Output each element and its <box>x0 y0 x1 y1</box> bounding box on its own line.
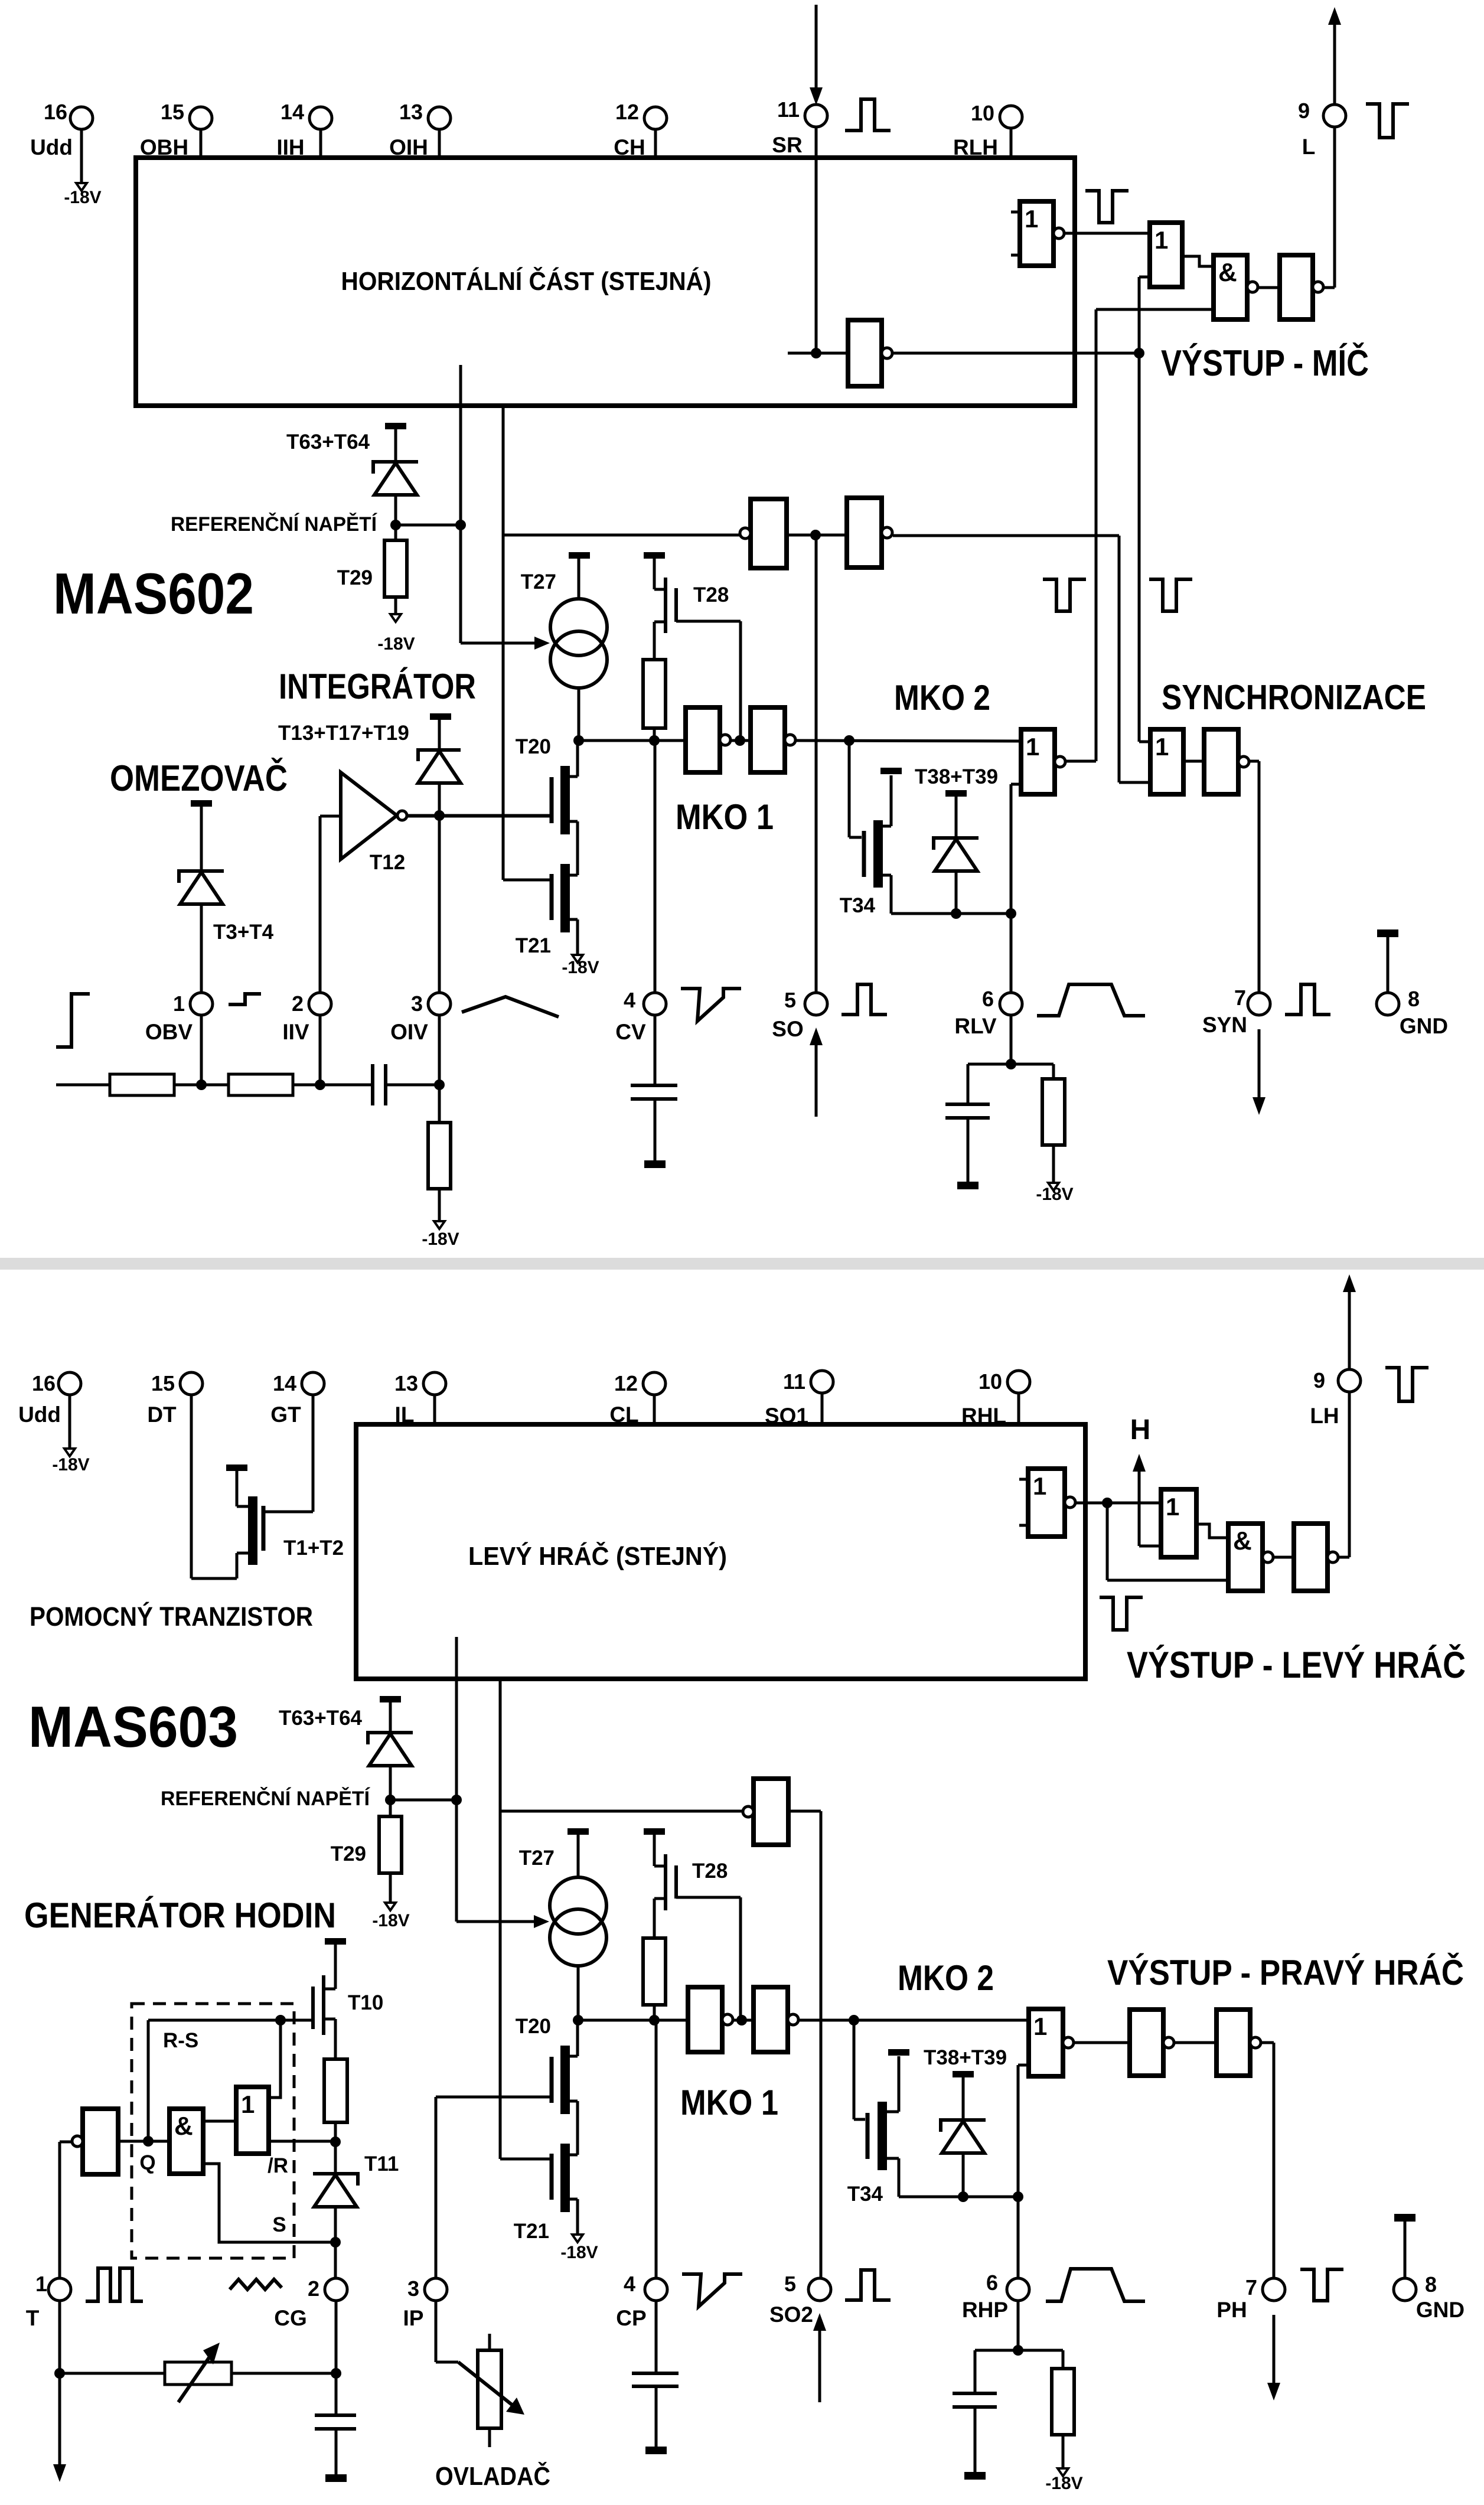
transistor T28 supply bar bottom <box>644 1828 665 1835</box>
pin 15 DT <box>180 1372 203 1395</box>
svg-text:HORIZONTÁLNÍ ČÁST (STEJNÁ): HORIZONTÁLNÍ ČÁST (STEJNÁ) <box>341 266 712 296</box>
svg-text:11: 11 <box>783 1369 805 1394</box>
waveform sawtooth at pin2 <box>230 2279 282 2289</box>
transistor T28 supply bar <box>644 552 665 559</box>
waveform pulse at pin7 PH <box>1300 2269 1343 2301</box>
waveform ramp at pin4 <box>681 989 741 1021</box>
wire U21 out to U22 <box>1174 2041 1216 2044</box>
input arrow pin11 <box>815 5 818 90</box>
svg-text:T38+T39: T38+T39 <box>915 765 998 788</box>
transistor T1+T2 <box>236 1471 239 1506</box>
output arrow pin7 PH <box>1273 2315 1276 2383</box>
waveform pulse below box <box>1100 1597 1143 1630</box>
NAND U8 MKO1 <box>686 707 720 772</box>
wire pin15 stem <box>200 128 203 158</box>
wire pin6 down <box>1010 1014 1013 1064</box>
diode T3+T4 supply bar <box>191 800 212 807</box>
wire feedback row <box>503 534 745 537</box>
wire T21 source to -18V bottom <box>576 2199 579 2235</box>
svg-text:IIH: IIH <box>276 135 304 159</box>
wire SO2 line <box>820 1811 823 2279</box>
power -18V below T29 <box>390 614 401 622</box>
MKO1 feedback line <box>502 406 505 535</box>
wire U20 out to U21 <box>1074 2041 1130 2044</box>
inverter T12 <box>341 772 397 859</box>
svg-text:SO1: SO1 <box>765 1404 808 1428</box>
svg-text:GENERÁTOR HODIN: GENERÁTOR HODIN <box>24 1896 336 1935</box>
wire T20 drain up <box>576 741 579 777</box>
wire pin2 stem <box>319 1014 322 1085</box>
svg-text:4: 4 <box>624 988 635 1012</box>
svg-text:-18V: -18V <box>52 1455 89 1475</box>
node S <box>330 2237 341 2248</box>
pin 11 SO1 <box>811 1371 833 1393</box>
wire diode T38 to row <box>955 871 958 914</box>
node U8 out <box>735 735 745 746</box>
svg-text:13: 13 <box>394 1371 418 1395</box>
wire T27 to node T20 bottom <box>577 1966 580 2020</box>
svg-text:T11: T11 <box>364 2152 399 2175</box>
pin 16 Udd bottom <box>58 1372 81 1395</box>
wire T20 source to T21 drain bottom <box>576 2101 579 2155</box>
wire U25 out to R node <box>269 2140 335 2143</box>
wire U6 input to node SO <box>787 534 847 537</box>
wire pin14 to T1 gate <box>312 1394 315 1512</box>
node RHP column <box>1013 2191 1023 2202</box>
svg-text:POMOCNÝ TRANZISTOR: POMOCNÝ TRANZISTOR <box>30 1601 313 1632</box>
OR gate U25 <box>236 2087 269 2154</box>
wire U8 to U9 <box>730 739 751 742</box>
variable resistor R5 <box>165 2362 231 2385</box>
resistor T29 <box>394 525 397 540</box>
wire resistor to node <box>653 728 656 741</box>
svg-text:R-S: R-S <box>163 2029 198 2052</box>
transistor T63+T64 supply bar <box>385 423 406 429</box>
wire pin10 stem bottom <box>1017 1392 1020 1424</box>
capacitor C4 <box>335 2373 338 2415</box>
inverter U6 facing left <box>751 499 787 568</box>
wire pin15 to T1 source <box>190 1394 193 1578</box>
wire diode T3 to pin1 <box>200 904 203 994</box>
wire U14 out jog to U15 <box>1196 1524 1228 1538</box>
resistor below T10 <box>324 2059 347 2122</box>
wire Q up to T10 gate <box>147 2020 150 2141</box>
svg-text:5: 5 <box>784 2272 796 2296</box>
svg-text:REFERENČNÍ NAPĚTÍ: REFERENČNÍ NAPĚTÍ <box>161 1787 371 1810</box>
node SO feedback <box>810 530 821 540</box>
svg-text:13: 13 <box>399 100 423 124</box>
diode T11 <box>334 2142 337 2174</box>
current source T27 supply bar bottom <box>567 1828 589 1835</box>
node pin1 bottom <box>54 2368 65 2379</box>
svg-text:T3+T4: T3+T4 <box>213 921 274 944</box>
wire pin3 down to wiper <box>435 2299 438 2362</box>
pin 5 SO <box>805 993 827 1015</box>
transistor T21 bottom <box>560 2144 570 2212</box>
svg-text:7: 7 <box>1234 986 1246 1010</box>
wire pin12 stem <box>654 128 657 158</box>
node row MKO1 bottom <box>578 2019 688 2022</box>
wire T11 to S node <box>334 2207 337 2242</box>
wire T34 source row bottom <box>899 2196 1018 2199</box>
svg-text:RHP: RHP <box>962 2298 1008 2322</box>
inverter U7 <box>847 498 882 567</box>
svg-text:OVLADAČ: OVLADAČ <box>435 2461 550 2491</box>
svg-text:-18V: -18V <box>1045 2474 1082 2493</box>
wire C6 to ground <box>974 2407 977 2472</box>
wire U5 output to pin9 <box>1323 286 1335 289</box>
svg-text:SYN: SYN <box>1202 1013 1247 1037</box>
wire U13 input stubs <box>1019 1478 1028 1481</box>
svg-text:PH: PH <box>1216 2298 1247 2322</box>
wire diode T13 to T12 out <box>438 783 441 816</box>
OR gate U11 sync <box>1150 729 1183 794</box>
wire U24 out to U25 <box>203 2120 236 2123</box>
resistor below T28 bottom <box>643 1938 666 2005</box>
current source T27 supply bar <box>569 552 590 559</box>
svg-text:12: 12 <box>614 1371 638 1395</box>
wire to R4 <box>1011 1063 1054 1066</box>
output arrow pin1 <box>58 2373 61 2465</box>
wire RHP column <box>1017 2065 1020 2279</box>
node ref on vertical x773 <box>451 1795 462 1805</box>
current source T27 bottom <box>550 1877 606 1934</box>
svg-text:T29: T29 <box>337 566 373 589</box>
IC block MAS603 left player box <box>356 1424 1085 1679</box>
node pin3 <box>434 1079 445 1090</box>
svg-text:9: 9 <box>1313 1368 1325 1392</box>
resistor T29 bottom <box>389 1800 392 1816</box>
svg-text:IL: IL <box>395 1402 415 1427</box>
pin 14 IIH <box>309 107 332 129</box>
svg-text:MKO 1: MKO 1 <box>676 797 774 837</box>
MKO1 feedback line bottom <box>499 1677 502 1811</box>
svg-text:T34: T34 <box>840 894 876 917</box>
wire supply to T27 <box>578 558 580 600</box>
svg-text:1: 1 <box>1033 1472 1046 1500</box>
power -18V below T21 <box>572 955 583 963</box>
wire SR line inside box <box>815 126 818 353</box>
pin 4 CP <box>645 2278 667 2301</box>
svg-text:3: 3 <box>411 991 423 1016</box>
svg-text:-18V: -18V <box>1036 1185 1073 1204</box>
pin 11 SR <box>805 105 827 127</box>
wire supply to diode T38 bottom <box>962 2077 965 2120</box>
wire U9 out to MKO2 <box>795 741 1021 741</box>
node Q top <box>275 2015 286 2025</box>
svg-text:SR: SR <box>772 133 802 157</box>
wire pin6 down <box>1017 2299 1020 2350</box>
wire supply to diode T63 <box>394 429 397 462</box>
transistor T10 <box>334 1945 337 1989</box>
ground below C3 <box>957 1182 979 1189</box>
resistor R3 <box>428 1123 451 1189</box>
pin 9 LH <box>1338 1369 1361 1392</box>
svg-text:&: & <box>1233 1527 1252 1555</box>
wire to R6 <box>1018 2349 1063 2352</box>
svg-text:1: 1 <box>1154 226 1168 254</box>
svg-text:RLH: RLH <box>953 135 998 159</box>
inverter U1 in box <box>848 320 882 386</box>
output arrow pin9 LH <box>1348 1290 1351 1371</box>
wire resistor T10 to R node <box>334 2122 337 2142</box>
AND gate U15 <box>1228 1524 1263 1591</box>
wire pin13 stem <box>438 128 441 158</box>
svg-text:/R: /R <box>268 2154 288 2177</box>
svg-text:T12: T12 <box>370 851 405 874</box>
transistor T28 <box>653 558 656 589</box>
svg-text:14: 14 <box>273 1371 296 1395</box>
svg-text:5: 5 <box>784 988 796 1012</box>
svg-text:T34: T34 <box>847 2183 883 2206</box>
node T34 gate takeoff <box>844 735 854 746</box>
current source T27 <box>550 599 607 655</box>
svg-text:1: 1 <box>1025 205 1038 233</box>
inverter U2 with pulse output <box>1020 201 1054 266</box>
wire pin1 down <box>58 2299 61 2373</box>
svg-text:MKO 2: MKO 2 <box>898 1958 994 1998</box>
svg-text:L: L <box>1302 135 1316 159</box>
svg-text:MAS602: MAS602 <box>53 561 254 626</box>
wire T21 source to -18V <box>576 919 579 955</box>
diode T38+T39 bottom <box>941 2120 986 2132</box>
svg-text:10: 10 <box>971 101 994 125</box>
wire to C6 <box>975 2349 1018 2352</box>
wire pin16 to -18V <box>80 128 83 183</box>
wire pin4 to C5 <box>655 2299 658 2373</box>
power -18V below R6 <box>1058 2468 1068 2476</box>
waveform trapezoid at pin6 <box>1037 984 1145 1016</box>
power -18V below T29 bottom <box>385 1903 396 1910</box>
ground below C5 <box>645 2447 667 2454</box>
waveform trapezoid at pin6 RHP <box>1046 2269 1145 2301</box>
wire U25 out up to Q line <box>269 2020 281 2098</box>
wire ref node to vertical bottom <box>390 1799 456 1802</box>
waveform pulse left above MKO2 <box>1043 579 1086 611</box>
waveform pulse at pin7 <box>1285 984 1330 1015</box>
svg-text:CL: CL <box>609 1402 638 1427</box>
svg-text:GND: GND <box>1400 1014 1448 1038</box>
wire U23 input row <box>118 2140 169 2143</box>
svg-text:VÝSTUP - MÍČ: VÝSTUP - MÍČ <box>1161 343 1369 384</box>
pin 8 GND bottom <box>1394 2278 1416 2301</box>
input arrow H <box>1138 1470 1141 1546</box>
pin 6 RLV <box>1000 993 1022 1015</box>
OR gate U10 MKO2 <box>1021 729 1055 794</box>
svg-text:MKO 2: MKO 2 <box>894 678 990 717</box>
svg-text:6: 6 <box>982 987 994 1011</box>
wire C2 to ground <box>654 1099 657 1160</box>
waveform pulse right above MKO2 <box>1149 579 1192 611</box>
pin 7 PH <box>1263 2278 1285 2301</box>
pin 2 CG <box>325 2278 347 2301</box>
wire supply to diode T63 bottom <box>389 1702 392 1733</box>
svg-text:1: 1 <box>173 991 185 1016</box>
waveform pulse at pin9 <box>1366 104 1409 138</box>
pin 1 T bottom <box>48 2278 71 2301</box>
svg-text:16: 16 <box>44 100 67 124</box>
waveform pulse at pin5 <box>842 984 887 1015</box>
waveform triangle at pin3 <box>462 997 559 1017</box>
node RHP RC <box>1013 2345 1023 2356</box>
wire U17 input to SO2 line <box>788 1810 821 1813</box>
wire U18 to U19 <box>732 2019 754 2022</box>
wire R3 to -18V <box>438 1189 441 1221</box>
wire T27 to node T20 <box>578 687 580 741</box>
node Q <box>143 2136 154 2147</box>
svg-text:10: 10 <box>979 1369 1002 1394</box>
svg-text:T20: T20 <box>516 2015 551 2038</box>
pin 12 CH <box>644 107 667 129</box>
wire T20 source to T21 drain <box>576 821 579 875</box>
svg-text:T21: T21 <box>514 2220 549 2243</box>
waveform pulse at pin5 SO2 <box>845 2270 891 2300</box>
pin 2 IIV <box>309 993 331 1015</box>
node diode T38 bottom b <box>958 2191 968 2202</box>
capacitor C1 <box>371 1064 374 1105</box>
svg-text:RHL: RHL <box>961 1404 1006 1428</box>
svg-text:MKO 1: MKO 1 <box>680 2083 778 2122</box>
svg-text:T28: T28 <box>693 583 729 606</box>
svg-text:OBV: OBV <box>145 1020 193 1044</box>
svg-text:15: 15 <box>161 100 184 124</box>
svg-text:1: 1 <box>1026 733 1039 761</box>
svg-text:1: 1 <box>1033 2013 1047 2040</box>
wire pin4 to MKO1 <box>654 741 657 994</box>
svg-text:CP: CP <box>616 2306 646 2330</box>
capacitor C2 <box>631 1084 677 1087</box>
wire T34 gate bottom <box>853 2020 856 2119</box>
wire node down to U15 <box>1106 1503 1109 1580</box>
resistor R4 <box>1042 1079 1065 1145</box>
AND gate U4 <box>1214 255 1247 319</box>
wire pin8 up bottom <box>1404 2221 1407 2279</box>
pin 16 Udd <box>70 107 93 129</box>
svg-text:OBH: OBH <box>140 135 188 159</box>
svg-text:6: 6 <box>986 2271 998 2295</box>
resistor R2 <box>229 1074 293 1095</box>
wire supply to diode T3 <box>200 806 203 871</box>
node pin1 <box>196 1079 207 1090</box>
inverter U21 <box>1130 2010 1163 2076</box>
svg-text:T: T <box>26 2306 40 2330</box>
wire U10 lower stub <box>1011 783 1021 786</box>
inverter U5 <box>1280 255 1313 319</box>
svg-text:LH: LH <box>1310 1404 1339 1428</box>
wire U20 lower stub bottom <box>1018 2064 1029 2067</box>
svg-text:RLV: RLV <box>954 1014 997 1038</box>
svg-text:-18V: -18V <box>560 2243 598 2262</box>
pin 15 OBH <box>190 107 212 129</box>
svg-text:1: 1 <box>241 2090 255 2118</box>
wire node to U14 <box>1107 1502 1161 1505</box>
pin 5 SO2 <box>808 2278 831 2301</box>
pin 3 OIV <box>428 993 451 1015</box>
svg-text:DT: DT <box>147 1402 177 1427</box>
NAND U18 MKO1 bottom <box>688 1987 722 2052</box>
svg-text:OIH: OIH <box>389 135 428 159</box>
pin 1 OBV <box>190 993 213 1015</box>
transistor T34 <box>873 820 883 888</box>
pin 10 RHL <box>1007 1371 1030 1393</box>
AND gate U24 <box>169 2109 203 2174</box>
wire C1 to pin3 node <box>386 1084 439 1087</box>
svg-text:T20: T20 <box>516 735 551 758</box>
svg-text:SO: SO <box>772 1017 803 1041</box>
node left player out <box>1102 1498 1113 1508</box>
wire SO to feedback node <box>815 535 818 994</box>
wire U22 out to pin7 PH <box>1261 2041 1274 2044</box>
NAND U19 MKO1 bottom <box>754 1987 788 2052</box>
wire box to T27 arrow <box>459 365 462 525</box>
wire box to T27 arrow bottom <box>455 1637 458 1800</box>
svg-text:S: S <box>272 2213 286 2236</box>
wire vertical net x1856 MKO2 out to U4 <box>1095 309 1098 761</box>
input arrow pin5 <box>815 1044 818 1117</box>
wire feedback down to T21 gate bottom <box>499 1811 502 2159</box>
svg-text:&: & <box>1218 258 1237 287</box>
svg-text:9: 9 <box>1298 99 1310 123</box>
NAND U23 facing left <box>83 2109 118 2174</box>
svg-text:INTEGRÁTOR: INTEGRÁTOR <box>279 667 476 706</box>
svg-text:CH: CH <box>614 135 645 159</box>
wire pin4 to MKO1 bottom <box>655 2020 658 2279</box>
wire pin13 stem <box>433 1394 436 1424</box>
wire T29 to -18V <box>394 597 397 614</box>
pin 9 L <box>1323 105 1346 127</box>
wire T20 drain up bottom <box>576 2020 579 2056</box>
svg-text:T38+T39: T38+T39 <box>924 2046 1007 2069</box>
waveform ramp at pin4 CP <box>682 2274 742 2307</box>
pin 13 OIH <box>428 107 451 129</box>
wire U2 input stubs <box>1011 211 1020 214</box>
power -18V below R4 <box>1048 1183 1059 1190</box>
svg-text:16: 16 <box>32 1371 56 1395</box>
svg-text:REFERENČNÍ NAPĚTÍ: REFERENČNÍ NAPĚTÍ <box>171 513 378 536</box>
diode T38+T39 <box>934 838 979 850</box>
OR gate U13 in box <box>1028 1469 1065 1537</box>
diode T38+T39 supply bar bottom <box>953 2071 974 2077</box>
svg-text:4: 4 <box>624 2272 635 2296</box>
transistor T63+T64 supply bar bottom <box>380 1696 401 1702</box>
node CG bottom <box>331 2368 341 2379</box>
svg-text:SYNCHRONIZACE: SYNCHRONIZACE <box>1162 678 1426 717</box>
svg-text:T63+T64: T63+T64 <box>286 430 370 454</box>
svg-text:7: 7 <box>1245 2275 1257 2299</box>
wire T34 source row <box>891 912 1011 915</box>
diode T63+T64 <box>373 462 418 474</box>
wire stub into U1 <box>788 352 848 355</box>
wire R4 to -18V <box>1052 1145 1055 1183</box>
node R <box>330 2137 341 2147</box>
wire pin12 stem <box>653 1394 656 1424</box>
capacitor C5 <box>632 2372 679 2375</box>
wire supply to T27 bottom <box>577 1835 580 1877</box>
wire pin2 down <box>335 2299 338 2373</box>
svg-text:T21: T21 <box>516 934 551 957</box>
wire U4 out to U5 <box>1258 286 1280 289</box>
output arrow pin7 <box>1258 1029 1261 1097</box>
OR gate U20 MKO2 bottom <box>1029 2009 1063 2076</box>
variable resistor OVLADAC <box>478 2350 501 2428</box>
pin 12 CL <box>643 1372 666 1395</box>
svg-text:MAS603: MAS603 <box>28 1694 238 1759</box>
wire RLV column <box>1010 784 1013 994</box>
wire T12 output to T20 gate <box>407 814 552 817</box>
wire pin1 stem <box>200 1014 203 1085</box>
inverter U22 <box>1216 2010 1250 2076</box>
NAND U9 MKO1 <box>751 707 785 772</box>
